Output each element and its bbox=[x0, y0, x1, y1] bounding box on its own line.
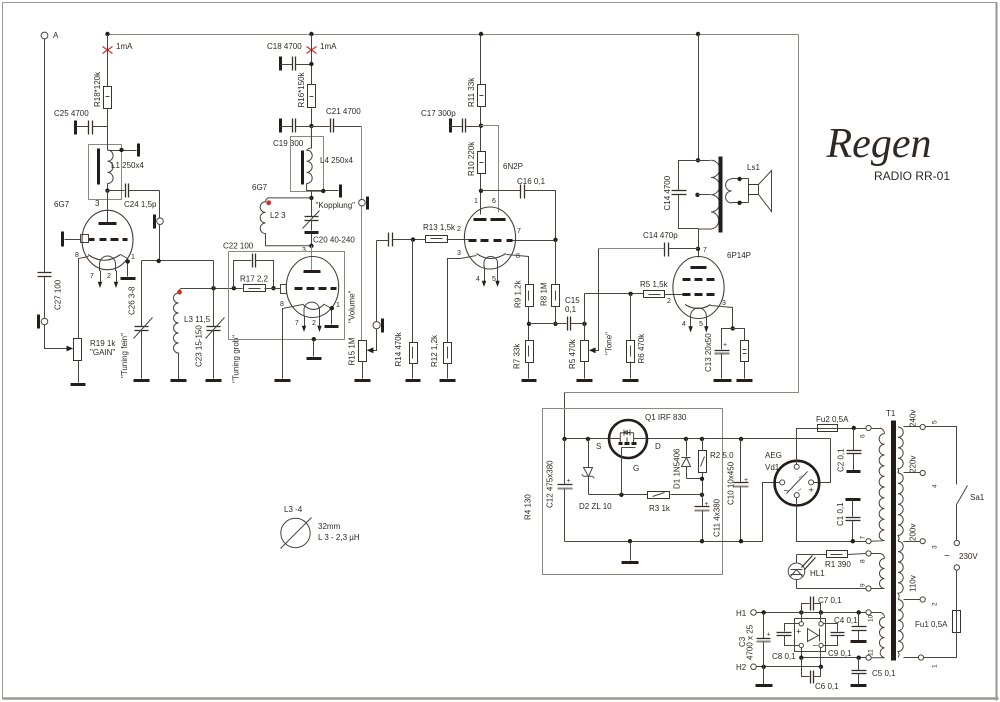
fuse Fu2 0,5A bbox=[816, 415, 849, 432]
switch Sa1 bbox=[926, 427, 985, 546]
antenna terminal A bbox=[41, 32, 48, 39]
page frame right thick bbox=[996, 3, 998, 701]
svg-text:Ls1: Ls1 bbox=[747, 163, 760, 172]
svg-text:2: 2 bbox=[457, 226, 461, 233]
box stage2 bbox=[229, 252, 345, 340]
resistor R10 220k bbox=[467, 141, 486, 176]
svg-text:R18*120k: R18*120k bbox=[93, 71, 102, 107]
resistor R9 1,2k bbox=[514, 279, 534, 308]
svg-text:R10 220k: R10 220k bbox=[467, 141, 476, 176]
svg-text:C19 300: C19 300 bbox=[273, 139, 304, 148]
svg-text:C9 0,1: C9 0,1 bbox=[828, 649, 852, 658]
inductor L2 3 bbox=[260, 198, 311, 246]
ground R5 pot bbox=[577, 379, 593, 382]
svg-text:10: 10 bbox=[868, 614, 875, 622]
wire L4 to kopplung node bbox=[307, 190, 312, 192]
6N2P cathode arc bbox=[477, 254, 507, 259]
capacitor C17 300p bbox=[421, 109, 481, 133]
svg-text:110v: 110v bbox=[909, 575, 918, 592]
resistor R8 1M bbox=[540, 282, 560, 306]
wire R16 to node126 bbox=[311, 109, 313, 149]
wire bus to R11 bbox=[480, 35, 482, 85]
svg-text:2: 2 bbox=[667, 298, 671, 305]
svg-text:RADIO RR-01: RADIO RR-01 bbox=[874, 169, 950, 183]
svg-text:C11 4x380: C11 4x380 bbox=[713, 498, 722, 537]
wire bridge bottom to pin7 bbox=[797, 498, 866, 542]
svg-text:2: 2 bbox=[932, 602, 939, 606]
svg-text:1: 1 bbox=[131, 254, 135, 261]
wire C27 to jack bbox=[44, 277, 46, 319]
svg-text:5: 5 bbox=[932, 420, 939, 424]
svg-text:200v: 200v bbox=[909, 524, 918, 541]
tube1 anode bar bbox=[99, 222, 117, 225]
wire tube1 pin8 to R19 bbox=[79, 257, 89, 339]
svg-text:L3 11,5: L3 11,5 bbox=[184, 315, 211, 324]
wire H1 row bbox=[757, 612, 866, 614]
svg-text:9: 9 bbox=[860, 583, 867, 587]
svg-text:8: 8 bbox=[75, 252, 79, 259]
svg-text:240v: 240v bbox=[909, 410, 918, 427]
tube2 pin1 wire and bar bbox=[325, 302, 341, 327]
svg-text:R1 390: R1 390 bbox=[825, 560, 851, 569]
wire B+ drop to PSU bbox=[564, 393, 566, 439]
svg-text:1: 1 bbox=[336, 302, 340, 309]
svg-text:R16*150k: R16*150k bbox=[297, 71, 306, 107]
jack volume wiper bbox=[373, 319, 383, 333]
lamp winding 8-9 bbox=[860, 551, 885, 591]
svg-text:C27 100: C27 100 bbox=[54, 279, 63, 310]
svg-text:7: 7 bbox=[90, 273, 94, 280]
6P14P grid1 dashes bbox=[683, 293, 715, 296]
resistor R1 390 bbox=[797, 551, 866, 570]
svg-text:2: 2 bbox=[107, 273, 111, 280]
svg-text:3: 3 bbox=[95, 199, 100, 208]
svg-text:6N2P: 6N2P bbox=[503, 162, 523, 171]
svg-text:L3 -4: L3 -4 bbox=[284, 505, 303, 514]
wire top B+ bus bbox=[108, 34, 799, 36]
wire C26 to ground bbox=[141, 331, 143, 379]
wire R8 leads bbox=[555, 241, 557, 285]
capacitor C13 20x50 bbox=[704, 329, 733, 379]
variable capacitor C20 40-240 bbox=[303, 211, 356, 246]
tube1 heater arrows bbox=[90, 271, 118, 289]
svg-text:+: + bbox=[767, 632, 771, 639]
wire R3 to node bbox=[671, 494, 703, 496]
bridge heater square bbox=[795, 619, 826, 652]
svg-text:1: 1 bbox=[932, 664, 939, 668]
svg-text:R3 1k: R3 1k bbox=[649, 504, 671, 513]
svg-text:R8 1M: R8 1M bbox=[540, 282, 549, 306]
wire L1 top tap to T-bar bbox=[108, 150, 137, 152]
svg-text:C1 0,1: C1 0,1 bbox=[836, 502, 845, 526]
6N2P grid right exit bbox=[513, 240, 556, 242]
svg-text:3: 3 bbox=[932, 545, 939, 549]
svg-text:C22 100: C22 100 bbox=[223, 242, 254, 251]
svg-text:3: 3 bbox=[722, 300, 726, 307]
svg-text:8: 8 bbox=[516, 253, 520, 260]
wire C23 to ground bbox=[213, 331, 215, 379]
resistor R3 1k bbox=[648, 492, 671, 514]
svg-text:C2 0,1: C2 0,1 bbox=[836, 448, 845, 472]
svg-text:R9 1,2k: R9 1,2k bbox=[514, 279, 523, 308]
resistor R17 2,2 bbox=[240, 275, 269, 292]
svg-text:C14 4700: C14 4700 bbox=[663, 175, 672, 210]
ground R19 bbox=[71, 383, 86, 386]
resistor cathode 6P14P bbox=[733, 329, 749, 379]
wire gate row bbox=[589, 494, 648, 496]
resistor R16 150k bbox=[297, 71, 316, 107]
wire wiper to R15 bbox=[372, 329, 377, 351]
resistor R13 1,5k bbox=[413, 223, 469, 243]
svg-text:C10 10x450: C10 10x450 bbox=[727, 461, 736, 505]
tube1 grid side terminal bbox=[63, 232, 89, 247]
wire bridge minus link bbox=[763, 483, 780, 542]
svg-text:D2 ZL 10: D2 ZL 10 bbox=[579, 502, 612, 511]
svg-text:230V: 230V bbox=[959, 552, 978, 561]
wire tuning row y261 bbox=[142, 260, 214, 262]
svg-text:C6 0,1: C6 0,1 bbox=[815, 682, 839, 691]
fuse Fu1 0,5A bbox=[915, 571, 961, 658]
capacitor C7 0,1 bbox=[802, 596, 843, 613]
svg-text:11: 11 bbox=[868, 649, 875, 656]
svg-text:1: 1 bbox=[474, 198, 478, 205]
6P14P heater bbox=[691, 308, 707, 319]
wire antenna down bbox=[44, 39, 46, 273]
node bus tap stage1 bbox=[105, 32, 109, 36]
jack volume top bbox=[359, 197, 368, 210]
resistor R18 120k bbox=[93, 71, 112, 109]
capacitor C21 4700 bbox=[312, 107, 362, 133]
svg-text:7: 7 bbox=[703, 247, 707, 254]
svg-text:R5 1,5k: R5 1,5k bbox=[640, 280, 669, 289]
tube2 heater arrows bbox=[295, 316, 322, 333]
svg-text:H1: H1 bbox=[736, 609, 747, 618]
svg-text:"Kopplung": "Kopplung" bbox=[316, 201, 356, 210]
6N2P plate bars bbox=[474, 218, 487, 221]
bridge rectifier AEG Vd1 bbox=[765, 451, 819, 505]
tube2 cathode arc bbox=[303, 304, 325, 310]
tube1 heater bbox=[100, 256, 116, 271]
svg-text:Regen: Regen bbox=[826, 121, 932, 167]
svg-text:R17 2,2: R17 2,2 bbox=[240, 275, 269, 284]
jack tube1 grid line bbox=[155, 215, 164, 229]
svg-text:R11 33k: R11 33k bbox=[467, 77, 476, 107]
diode D1 1N5406 bbox=[673, 437, 703, 489]
jack antenna bbox=[39, 315, 48, 329]
svg-text:4: 4 bbox=[932, 484, 939, 488]
svg-text:2: 2 bbox=[312, 320, 316, 327]
wire y294 row bbox=[585, 293, 644, 295]
svg-text:6: 6 bbox=[492, 198, 496, 205]
wire C21 down to jack3 bbox=[361, 127, 363, 200]
wire R9 to node bbox=[528, 307, 530, 341]
wire R11 to node bbox=[480, 107, 482, 152]
wire wiper jack up bbox=[376, 241, 378, 322]
speaker Ls1 bbox=[747, 163, 772, 212]
ground R7 bbox=[522, 379, 537, 382]
svg-text:R6 470k: R6 470k bbox=[637, 333, 646, 364]
potentiometer R19 1k GAIN bbox=[74, 339, 117, 361]
svg-text:6P14P: 6P14P bbox=[727, 251, 751, 260]
svg-text:Fu2 0,5A: Fu2 0,5A bbox=[816, 415, 849, 424]
svg-text:"Tuning grob": "Tuning grob" bbox=[232, 335, 241, 383]
wire node to tube1 top cap bbox=[107, 191, 109, 223]
svg-text:C12 475x380: C12 475x380 bbox=[546, 460, 555, 508]
wire C26 drop bbox=[141, 261, 143, 327]
svg-text:5: 5 bbox=[699, 321, 703, 328]
svg-text:C14 470p: C14 470p bbox=[643, 231, 678, 240]
wire C15 node to pot bbox=[584, 324, 586, 341]
svg-text:4700 x 25: 4700 x 25 bbox=[746, 624, 755, 660]
ground PSU bbox=[630, 542, 632, 561]
ground C26 bbox=[134, 379, 150, 382]
svg-text:~: ~ bbox=[944, 551, 950, 562]
svg-text:C8 0,1: C8 0,1 bbox=[772, 652, 796, 661]
capacitor C22 100 bbox=[223, 242, 274, 289]
wire bus to C18 node bbox=[311, 35, 313, 85]
ground C13 bbox=[714, 379, 732, 382]
diode D2 ZL 10 bbox=[579, 439, 612, 512]
lamp HL1 bbox=[788, 555, 825, 589]
svg-text:R19 1k: R19 1k bbox=[90, 339, 116, 348]
tube1 grid dashes bbox=[89, 238, 128, 241]
svg-text:Q1 IRF 830: Q1 IRF 830 bbox=[645, 413, 687, 422]
svg-text:C26 3-8: C26 3-8 bbox=[128, 286, 137, 315]
inductor L4 bbox=[307, 126, 313, 191]
wire pin6 branch bbox=[481, 126, 499, 213]
wire node to tube2 top bbox=[311, 246, 313, 271]
wire y288 row bbox=[181, 288, 243, 290]
box PSU module bbox=[543, 409, 723, 575]
svg-text:C13 20x50: C13 20x50 bbox=[704, 333, 713, 372]
ground C5 bbox=[851, 684, 867, 687]
capacitor C2 0,1 bbox=[836, 429, 861, 473]
svg-text:R13 1,5k: R13 1,5k bbox=[423, 223, 456, 232]
ground C3 bbox=[756, 684, 773, 687]
tube 6G7 second envelope bbox=[286, 257, 338, 318]
capacitor C15 0,1 bbox=[565, 296, 585, 331]
transformer T1 winding 6-7 bbox=[871, 428, 884, 541]
node stage2 box bottom bbox=[312, 337, 316, 341]
svg-text:6G7: 6G7 bbox=[54, 200, 70, 209]
bridge corner leads bbox=[801, 613, 803, 622]
svg-text:D: D bbox=[655, 442, 661, 451]
svg-text:G: G bbox=[633, 464, 639, 473]
ground C23 bbox=[206, 379, 222, 382]
6N2P grid dashes bbox=[469, 239, 513, 242]
svg-text:4: 4 bbox=[682, 321, 686, 328]
tube1 pin1 wire and bar bbox=[121, 254, 136, 279]
capacitor C9 0,1 bbox=[824, 624, 853, 659]
svg-text:C17 300p: C17 300p bbox=[421, 109, 456, 118]
wire box bottom stub bbox=[313, 340, 315, 357]
capacitor C5 0,1 bbox=[852, 658, 897, 685]
potentiometer R15 1M Volume bbox=[348, 290, 367, 365]
wire C23 drop bbox=[213, 289, 215, 327]
svg-text:"Tuning fein": "Tuning fein" bbox=[120, 333, 129, 378]
svg-text:HL1: HL1 bbox=[810, 569, 825, 578]
svg-text:+: + bbox=[796, 627, 801, 637]
wire link y261-y288 bbox=[213, 261, 215, 289]
tube2 heater bbox=[304, 302, 320, 315]
svg-text:4: 4 bbox=[476, 276, 480, 283]
svg-text:C21 4700: C21 4700 bbox=[326, 107, 361, 116]
svg-text:R2 5.0: R2 5.0 bbox=[710, 451, 734, 460]
ground stage2 box bbox=[307, 357, 322, 360]
svg-text:C24 1,5p: C24 1,5p bbox=[124, 200, 157, 209]
coil L4 250x4 box bbox=[291, 137, 324, 192]
wire R19 to ground bbox=[78, 361, 80, 383]
wire jack3 to R15 bbox=[361, 207, 363, 341]
mains 230V terminals bbox=[944, 551, 978, 570]
resistor R5 1,5k bbox=[640, 280, 683, 305]
terminal bar L1 bbox=[137, 144, 140, 157]
svg-text:6: 6 bbox=[860, 434, 867, 438]
capacitor C27 100 bbox=[38, 273, 63, 311]
wire R10 to node pin1 bbox=[480, 174, 482, 215]
svg-text:AEG: AEG bbox=[765, 451, 782, 460]
wire R14 drop bbox=[412, 240, 414, 343]
svg-text:R14 470k: R14 470k bbox=[394, 331, 403, 366]
svg-text:Sa1: Sa1 bbox=[970, 493, 985, 502]
svg-text:S: S bbox=[596, 442, 601, 451]
terminal bar L4 bbox=[339, 185, 342, 198]
ground R14 bbox=[406, 379, 421, 382]
svg-text:R7 33k: R7 33k bbox=[513, 343, 522, 369]
svg-text:"Volume": "Volume" bbox=[348, 290, 357, 323]
capacitor C1 0,1 bbox=[836, 500, 861, 542]
node bus tap output bbox=[696, 32, 700, 36]
capacitor C10 10x450 bbox=[727, 437, 749, 542]
node L1 bottom bbox=[105, 188, 109, 192]
red X 1mA stage2 bbox=[307, 47, 317, 54]
resistor R11 33k bbox=[467, 77, 486, 107]
wire bus to R18 bbox=[107, 35, 109, 87]
svg-text:+: + bbox=[809, 485, 814, 495]
6P14P cathode arc bbox=[685, 305, 711, 309]
variable capacitor C26 3-8 bbox=[120, 286, 153, 378]
ground L3 bbox=[171, 379, 187, 382]
svg-text:C23 15-150: C23 15-150 bbox=[195, 325, 204, 367]
wire L4 bottom to T-bar bbox=[307, 190, 339, 192]
ground C4 bbox=[851, 640, 867, 643]
tube2 grid side square bbox=[281, 285, 287, 294]
svg-text:7: 7 bbox=[517, 228, 521, 235]
OT secondary bbox=[726, 177, 749, 205]
wire R17 to tube2 grid bbox=[265, 288, 281, 290]
6N2P heater bbox=[484, 256, 498, 267]
capacitor C4 0,1 bbox=[834, 613, 867, 641]
terminal H2 bbox=[751, 664, 757, 670]
6P14P heater arrows bbox=[682, 318, 709, 333]
wire tone link up bbox=[584, 294, 586, 324]
svg-text:5: 5 bbox=[492, 276, 496, 283]
heater winding 10-11 bbox=[866, 610, 885, 661]
6P14P anode bar bbox=[691, 266, 707, 269]
node bus tap stage2 bbox=[309, 32, 313, 36]
svg-text:C20 40-240: C20 40-240 bbox=[313, 236, 355, 245]
capacitor C3 4700x25 bbox=[738, 613, 771, 685]
capacitor volume coupling bbox=[377, 233, 413, 247]
wire C24 to jack2 bbox=[159, 191, 161, 218]
svg-text:C7 0,1: C7 0,1 bbox=[818, 596, 842, 605]
svg-text:1mA: 1mA bbox=[320, 42, 337, 51]
svg-text:32mm: 32mm bbox=[318, 522, 341, 531]
wire jack2 down to node261 bbox=[159, 225, 161, 261]
svg-text:R12 1,2k: R12 1,2k bbox=[430, 334, 439, 367]
svg-text:3: 3 bbox=[457, 250, 461, 257]
svg-text:0,1: 0,1 bbox=[565, 305, 577, 314]
svg-text:R15 1M: R15 1M bbox=[348, 337, 357, 365]
wire H2 row bbox=[757, 666, 821, 668]
tube1 cathode arc bbox=[88, 255, 121, 261]
wire PSU rail bbox=[565, 438, 610, 440]
svg-text:+: + bbox=[723, 342, 727, 349]
capacitor C8 0,1 bbox=[772, 624, 800, 662]
coil L1 250x4 box bbox=[89, 145, 122, 200]
capacitor C25 4700 bbox=[54, 109, 108, 135]
svg-text:L 3 - 2,3 µH: L 3 - 2,3 µH bbox=[318, 533, 360, 542]
svg-text:1mA: 1mA bbox=[116, 42, 133, 51]
wire fuse to pin6 bbox=[839, 428, 866, 430]
wire jack to GAIN wiper bbox=[45, 325, 69, 349]
wire bus to OT bbox=[698, 35, 700, 161]
pin 7 terminal bbox=[866, 539, 871, 544]
red X 1mA stage1 bbox=[103, 47, 113, 54]
capacitor C12 475x380 bbox=[546, 439, 573, 542]
svg-text:L4 250x4: L4 250x4 bbox=[320, 156, 353, 165]
wire pin11 row bbox=[802, 657, 866, 659]
wire OT bottom to node7 bbox=[698, 229, 700, 258]
variable capacitor C23 15-150 bbox=[195, 318, 241, 384]
wire HL1 bottom to pin9 bbox=[797, 588, 866, 590]
svg-text:H2: H2 bbox=[736, 663, 747, 672]
wire bridge top to fuse bbox=[797, 429, 818, 465]
svg-text:C4 0,1: C4 0,1 bbox=[834, 616, 858, 625]
terminal H1 bbox=[751, 610, 757, 616]
svg-text:8: 8 bbox=[860, 559, 867, 563]
svg-text:C25 4700: C25 4700 bbox=[54, 109, 89, 118]
ground cathode resistor bbox=[737, 379, 753, 382]
transistor Q1 IRF 830 bbox=[596, 413, 687, 473]
resistor R2 5.0 bbox=[699, 437, 735, 495]
capacitor C24 1,5p bbox=[108, 184, 160, 210]
wire y324 row bbox=[529, 323, 567, 325]
svg-text:D1 1N5406: D1 1N5406 bbox=[673, 448, 682, 489]
note L3-4 bbox=[281, 505, 360, 549]
wiper arrow R15 bbox=[367, 347, 374, 353]
svg-text:3: 3 bbox=[302, 247, 306, 254]
node bus tap stage3 bbox=[479, 32, 483, 36]
svg-text:−: − bbox=[784, 486, 789, 496]
pin 6 terminal bbox=[866, 425, 871, 430]
svg-text:7: 7 bbox=[860, 536, 867, 540]
ground R12 bbox=[440, 379, 456, 382]
capacitor C14 4700 loop bbox=[663, 161, 699, 229]
svg-text:T1: T1 bbox=[886, 409, 896, 418]
ground R15 bbox=[355, 379, 371, 382]
capacitor C18 4700 bbox=[267, 42, 312, 71]
6N2P heater arrows bbox=[476, 267, 500, 288]
6P14P grid2 dashes bbox=[683, 278, 715, 281]
svg-text:A: A bbox=[53, 31, 59, 40]
wire R18 to C25 node bbox=[107, 109, 109, 145]
wire PSU bottom rail bbox=[565, 541, 763, 543]
ground tube2 pin8 bbox=[275, 379, 291, 382]
svg-text:C15: C15 bbox=[565, 296, 580, 305]
capacitor C16 0,1 bbox=[481, 177, 556, 240]
svg-text:R5 470k: R5 470k bbox=[568, 338, 577, 369]
